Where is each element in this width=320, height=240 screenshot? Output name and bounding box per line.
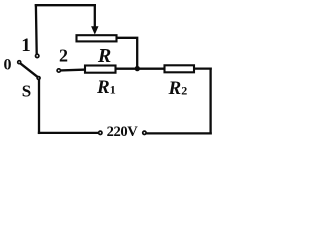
svg-text:220V: 220V <box>107 124 139 140</box>
wire R2 right to right rail corner <box>194 67 211 69</box>
wire rheostat wiper shaft <box>94 5 96 27</box>
switch pivot circle <box>37 77 40 80</box>
wire left rail vertical (pivot to bottom) <box>38 80 40 133</box>
svg-text:1: 1 <box>21 35 31 56</box>
wire bottom left segment <box>39 132 99 134</box>
wire R1 to R2 through junction <box>116 68 165 70</box>
node 0 contact circle <box>18 61 21 64</box>
node 2 contact circle <box>57 69 60 72</box>
wire rheostat right to vertical drop <box>117 38 138 68</box>
svg-text:2: 2 <box>59 46 68 66</box>
rheostat R box <box>77 35 117 41</box>
svg-text:S: S <box>22 81 31 100</box>
node 1 contact circle <box>36 54 39 57</box>
wire top rail <box>36 4 95 6</box>
wire top-left vertical (node 1 to top rail) <box>35 5 38 53</box>
wire bottom right segment <box>146 132 210 134</box>
junction dot (R1/R2/rheostat node) <box>135 66 140 71</box>
svg-text:R: R <box>97 45 111 67</box>
resistor R1 box <box>85 66 116 73</box>
rheostat wiper arrowhead <box>91 26 98 34</box>
switch S blade (pivot to contact 0) <box>21 64 38 77</box>
supply terminal left circle <box>99 131 102 134</box>
wire node 2 to R1 <box>61 68 85 71</box>
wire right rail vertical <box>209 69 211 134</box>
svg-text:0: 0 <box>4 57 12 74</box>
supply terminal right circle <box>143 131 146 134</box>
resistor R2 box <box>165 65 195 72</box>
